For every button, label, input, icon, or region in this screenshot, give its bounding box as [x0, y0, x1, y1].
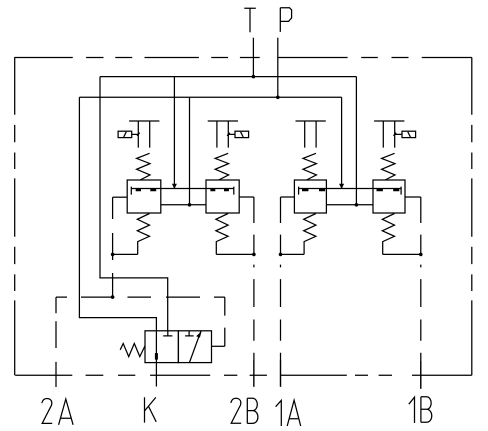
enclosure border (dashed) top edge — [14, 57, 472, 59]
spool metering dashes, valve 2 — [210, 189, 229, 191]
wire: valve 2 right stub — [239, 196, 254, 198]
wire: branch to right-pair spool line — [341, 97, 343, 188]
wire: orifice link, valve 2 — [227, 133, 235, 136]
wire: pilot tap right of valve — [212, 345, 225, 347]
arrow junction at left-pair spool line — [172, 184, 177, 189]
plug blob on K line — [155, 353, 158, 360]
valve return spring (left) — [120, 344, 145, 357]
K through-line in left square — [155, 331, 157, 363]
port label 2A — [42, 399, 52, 424]
upper spring, valve 4 — [382, 153, 395, 180]
directional valve body, right square — [178, 331, 211, 363]
pilot nozzle symbol, valve 4 — [374, 121, 404, 148]
port label 1B — [409, 397, 415, 423]
spool sense line, left pair — [131, 187, 234, 195]
upper spring, valve 2 — [215, 153, 228, 180]
pilot enclosure dashed right edge / pilot line — [224, 297, 226, 346]
port label T — [244, 8, 256, 32]
node: drain junction, valve 3 — [279, 253, 283, 257]
dashed work line 1A — [280, 197, 282, 387]
node: P junction — [276, 96, 280, 100]
wire: spring drain lateral, valve 4 — [383, 253, 421, 255]
directional valve body, left square — [145, 331, 178, 363]
flow path arrowhead — [196, 331, 202, 337]
compensator valve body 2 — [206, 180, 239, 213]
pilot enclosure dashed top edge — [56, 296, 225, 298]
wire: valve 1 left stub — [113, 196, 128, 198]
lower spring, valve 1 — [137, 214, 149, 255]
dashed work line 2B — [253, 197, 255, 387]
port stub 1A at border — [280, 360, 282, 387]
node on left-pair lower line — [188, 203, 192, 207]
wire: valve 4 right stub — [405, 196, 421, 198]
orifice box, valve 4 (right side) — [402, 131, 416, 137]
lower spring, valve 2 — [216, 214, 228, 255]
spool metering dashes, valve 3 — [302, 189, 325, 191]
port label P — [280, 8, 291, 32]
node: drain junction, valve 1 — [111, 253, 115, 257]
compensator valve body 3 — [294, 180, 326, 213]
dashed work line 1B — [420, 197, 422, 389]
upper spring, valve 3 — [303, 153, 316, 180]
enclosure border (dashed) left edge — [14, 58, 16, 376]
wire: spring drain lateral, valve 1 — [113, 253, 138, 255]
compensator valve body 1 — [127, 180, 161, 213]
wire: valve 3 left stub — [281, 196, 295, 198]
orifice box, valve 2 (right side) — [235, 131, 249, 137]
wire: P port riser — [277, 38, 279, 98]
lower spring, valve 3 — [304, 214, 316, 255]
port label 2B — [231, 398, 241, 423]
arrow junction at right-pair spool line — [339, 184, 344, 189]
wire: T bus left drop to pilot valve — [100, 77, 168, 331]
dashed drain line from valve 1 to pilot box — [112, 197, 114, 297]
spool metering dashes, valve 1 — [136, 189, 157, 191]
enclosure border (dashed) right edge — [471, 58, 473, 376]
upper spring, valve 1 — [137, 153, 150, 180]
compensator valve body 4 — [373, 180, 405, 213]
wire: lower link, right pair — [326, 204, 373, 206]
wire: orifice link, valve 4 — [394, 133, 403, 136]
node: drain junction, valve 4 — [419, 253, 423, 257]
node: drain junction, valve 2 — [252, 253, 256, 257]
pilot nozzle symbol, valve 1 — [129, 121, 159, 148]
port label 1A — [276, 400, 282, 426]
wire: branch to right-pair lower line — [355, 77, 357, 205]
orifice box, valve 1 (left side) — [118, 131, 132, 137]
pilot enclosure dashed left edge / 2A line — [55, 297, 57, 387]
blocked port symbol, right square — [185, 331, 194, 336]
lower spring, valve 4 — [382, 214, 394, 255]
node: drain line joins pilot enclosure — [111, 295, 115, 299]
wire: T bus horizontal — [100, 76, 356, 78]
wire: orifice link, valve 1 — [132, 133, 140, 136]
node on right-pair lower line — [355, 203, 359, 207]
spool sense line, right pair — [299, 187, 402, 195]
wire: K port line below valve — [155, 363, 157, 387]
node: T junction — [252, 75, 256, 79]
enclosure border (dashed) bottom edge — [15, 374, 472, 376]
wire: P bus left drop to K through-line — [79, 97, 156, 330]
wire: branch to left-pair spool line — [173, 77, 175, 189]
wire: T port riser — [252, 38, 254, 77]
blocked port symbol, left square — [163, 331, 172, 336]
port stub 2B at border — [253, 360, 255, 387]
pilot nozzle symbol, valve 3 — [296, 121, 326, 148]
spool metering dashes, valve 4 — [377, 189, 400, 191]
wire: branch to left-pair lower line — [189, 97, 191, 205]
wire: lower link, left pair — [161, 204, 206, 206]
wire: spring drain lateral, valve 3 — [281, 253, 305, 255]
port stub 1B at border — [420, 361, 422, 389]
wire: spring drain lateral, valve 2 — [216, 253, 254, 255]
flow path diagonal, right square — [190, 331, 202, 363]
pilot nozzle symbol, valve 2 — [208, 121, 238, 148]
wire: P bus horizontal — [79, 96, 341, 98]
port label K — [145, 397, 157, 422]
